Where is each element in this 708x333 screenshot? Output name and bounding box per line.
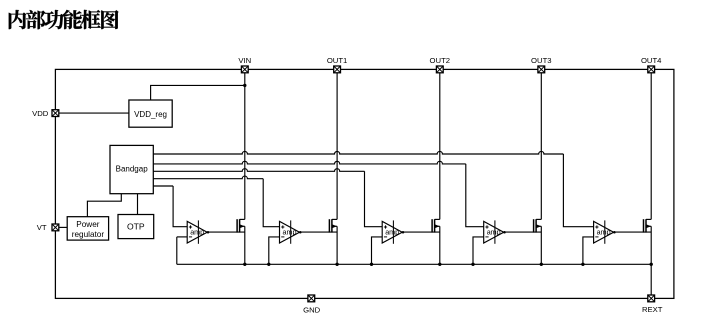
svg-text:VT: VT — [37, 223, 47, 232]
op-amp U3 — [382, 220, 404, 243]
wire Bandgap to OTP — [137, 194, 139, 215]
wire OUT2 to Q3 drain — [439, 73, 441, 220]
wire VIN branch to VDD_reg top — [151, 85, 245, 100]
wire rail to REXT — [650, 264, 652, 295]
svg-text:GND: GND — [303, 305, 321, 314]
junction Q2 source/rail — [335, 263, 338, 266]
svg-text:OUT3: OUT3 — [531, 56, 552, 65]
junction feedback3/rail — [370, 263, 373, 266]
transistor Q1 — [237, 219, 245, 232]
wire Q5 source to rail — [650, 226, 652, 264]
svg-text:amp: amp — [283, 227, 297, 236]
op-amp U4 — [484, 220, 506, 243]
pin VIN — [241, 66, 248, 73]
wire OUT4 to Q5 drain — [650, 73, 652, 220]
pin OUT1 — [334, 66, 341, 73]
transistor Q5 — [644, 219, 652, 232]
wire OUT3 to Q4 drain — [540, 73, 542, 220]
wire source rail — [176, 237, 178, 264]
wire VIN to Q1 drain — [244, 73, 246, 220]
svg-text:Power: Power — [76, 220, 99, 229]
wire amp4 - input feedback — [473, 237, 484, 264]
block Power regulator — [67, 217, 108, 240]
wire Bandgap ref4 to amp4 + input — [153, 161, 466, 164]
op-amp U2 — [280, 220, 302, 243]
wire Bandgap ref5 to amp5 + input — [153, 151, 563, 154]
wire U5 output to Q5 gate — [615, 231, 651, 233]
wire Q1 source to rail — [244, 226, 246, 264]
pin GND — [308, 295, 315, 302]
junction Q1 source/rail — [243, 263, 246, 266]
wire Bandgap ref3 to amp3 + input — [153, 169, 364, 172]
block VDD_reg — [129, 100, 172, 127]
svg-text:Bandgap: Bandgap — [116, 165, 149, 174]
wire U4 output to Q4 gate — [505, 231, 541, 233]
svg-text:amp: amp — [385, 227, 399, 236]
svg-text:regulator: regulator — [72, 230, 105, 239]
svg-text:OUT4: OUT4 — [641, 56, 662, 65]
junction Q4 source/rail — [540, 263, 543, 266]
transistor Q4 — [534, 219, 542, 232]
transistor Q3 — [432, 219, 440, 232]
svg-text:OUT2: OUT2 — [430, 56, 451, 65]
wire amp5 - input feedback — [583, 237, 594, 264]
junction VIN/VDD_reg — [243, 84, 246, 87]
junction Q3 source/rail — [438, 263, 441, 266]
svg-text:OTP: OTP — [127, 221, 145, 231]
wire amp1 - input feedback — [177, 236, 187, 238]
wire OUT1 to Q2 drain — [336, 73, 338, 220]
wire Bandgap ref1 to amp1 + input — [153, 185, 173, 187]
pin OUT2 — [436, 66, 443, 73]
block Bandgap — [110, 145, 153, 193]
op-amp U1 — [187, 220, 209, 243]
chip boundary — [55, 69, 674, 298]
wire amp2 - input feedback — [269, 237, 280, 264]
pin OUT3 — [538, 66, 545, 73]
title 内部功能框图 — [9, 10, 119, 29]
wire U1 output to Q1 gate — [209, 231, 245, 233]
junction feedback4/rail — [471, 263, 474, 266]
wire Q3 source to rail — [439, 226, 441, 264]
pin OUT4 — [648, 66, 655, 73]
wire amp3 - input feedback — [372, 237, 383, 264]
pin VT — [52, 224, 59, 231]
svg-text:amp: amp — [597, 227, 611, 236]
junction feedback2/rail — [267, 263, 270, 266]
wire Q4 source to rail — [540, 226, 542, 264]
block OTP — [118, 215, 154, 239]
wire U3 output to Q3 gate — [404, 231, 440, 233]
svg-text:amp: amp — [487, 227, 501, 236]
wire Q2 source to rail — [336, 226, 338, 264]
svg-text:VDD_reg: VDD_reg — [134, 110, 167, 119]
svg-text:VDD: VDD — [32, 109, 49, 118]
wire U2 output to Q2 gate — [301, 231, 337, 233]
svg-text:VIN: VIN — [238, 56, 251, 65]
svg-text:OUT1: OUT1 — [327, 56, 348, 65]
wire Bandgap ref2 to amp2 + input — [153, 176, 263, 179]
pin REXT — [648, 295, 655, 302]
wire VT to Power regulator — [59, 226, 67, 228]
wire Bandgap to Power regulator — [87, 194, 121, 217]
junction feedback5/rail — [581, 263, 584, 266]
op-amp U5 — [594, 220, 616, 243]
pin VDD — [52, 110, 59, 117]
svg-text:amp: amp — [190, 227, 204, 236]
wire VDD to VDD_reg — [59, 112, 129, 114]
junction Q5 source/rail — [650, 263, 653, 266]
transistor Q2 — [329, 219, 337, 232]
svg-text:REXT: REXT — [642, 305, 663, 314]
